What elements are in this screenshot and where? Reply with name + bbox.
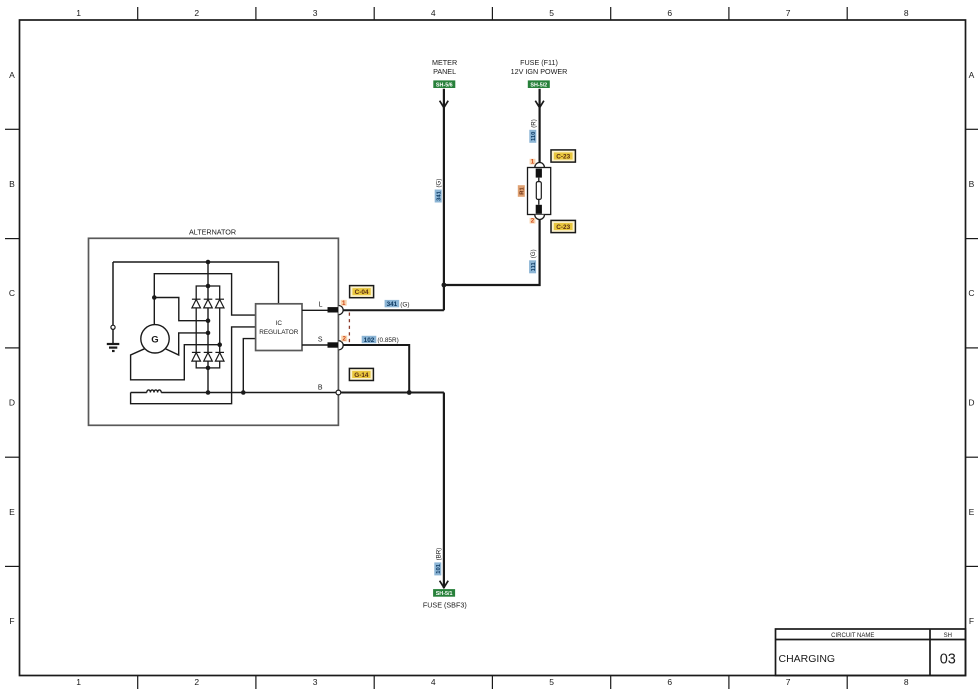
svg-text:B: B [969,179,975,189]
svg-text:8: 8 [904,677,909,687]
svg-text:12V IGN POWER: 12V IGN POWER [511,67,568,76]
generator G [141,325,169,353]
svg-text:METER: METER [432,58,457,67]
svg-text:C-23: C-23 [556,154,570,161]
svg-text:(R): (R) [530,119,537,128]
wire: phase B to rectifier center [165,333,208,355]
diode D5 (bottom center) [204,352,213,361]
svg-text:4: 4 [431,677,436,687]
svg-text:2: 2 [194,677,199,687]
svg-text:5: 5 [549,8,554,18]
svg-text:102: 102 [364,337,375,344]
diode D4 (bottom left) [192,352,201,361]
arrow on meter panel wire [440,101,449,108]
svg-text:(BR): (BR) [435,548,442,561]
svg-text:8: 8 [904,8,909,18]
svg-text:PANEL: PANEL [433,67,456,76]
wire label 110 (R) vertical [529,119,537,143]
pin 1 label (C-04) [341,300,347,307]
connector label C-23 upper [551,150,575,162]
pin 2 label (C-04) [341,336,347,343]
wire label 101 (BR) vertical [434,548,442,576]
sheet tag SH-5/1 (fuse SBF3) [433,589,455,597]
wire: generator top lead [153,298,155,325]
svg-text:(G): (G) [436,179,443,188]
svg-text:5: 5 [549,677,554,687]
svg-text:C: C [968,288,974,298]
wire: IC regulator field return [131,327,256,404]
svg-text:C-23: C-23 [556,224,570,231]
svg-text:1: 1 [76,677,81,687]
svg-text:SH-5/2: SH-5/2 [530,82,547,88]
svg-text:L: L [319,302,323,309]
wire: rectifier center rail [207,262,209,393]
svg-text:(0.85R): (0.85R) [377,337,398,344]
svg-text:B: B [9,179,15,189]
svg-text:D: D [968,398,974,408]
svg-text:7: 7 [786,8,791,18]
alternator outer box [89,238,339,425]
wire 341 (G): L terminal to meter panel line [343,309,444,311]
svg-text:ALTERNATOR: ALTERNATOR [189,228,236,237]
wire 102 (0.85R): S terminal to B rail [343,345,409,393]
IC regulator U1 [256,304,302,351]
wire 111 (G): resistor to branch junction [444,219,540,285]
grid row labels left [9,70,15,626]
svg-text:03: 03 [940,652,956,668]
svg-text:A: A [969,70,975,80]
connector label G-14 [349,368,373,380]
svg-text:6: 6 [667,677,672,687]
wire label 341 (G) horizontal [385,300,410,308]
sheet tag SH-5/6 (meter panel) [433,80,455,88]
svg-text:6: 6 [667,8,672,18]
svg-text:E: E [9,507,15,517]
svg-text:111: 111 [531,262,537,272]
diode D2 (top center) [204,299,213,308]
grid row labels right [968,70,974,626]
svg-text:SH: SH [944,633,952,639]
connector label C-23 lower [551,220,575,232]
svg-text:E: E [969,507,975,517]
arrow on fuse F11 wire [535,101,544,108]
svg-text:(G): (G) [530,249,537,258]
svg-text:3: 3 [313,8,318,18]
svg-text:7: 7 [786,677,791,687]
svg-text:D: D [9,398,15,408]
svg-text:1: 1 [342,300,346,307]
svg-text:2: 2 [342,336,346,343]
connector boundary dashed line C-04 [348,313,350,344]
wire: fuse F11 drop to resistor [538,89,540,163]
svg-text:IC: IC [276,320,283,327]
svg-text:SH-5/6: SH-5/6 [436,82,453,88]
pin 2 label (C-23) [530,218,536,225]
svg-text:CIRCUIT NAME: CIRCUIT NAME [831,633,874,639]
svg-text:G-14: G-14 [354,372,369,379]
svg-text:F: F [969,616,974,626]
node: center rail on B rail [206,390,211,395]
svg-text:A: A [9,70,15,80]
svg-text:R1: R1 [520,187,526,195]
svg-text:F: F [9,616,14,626]
sheet tag SH-5/2 (fuse F11) [528,80,550,88]
node: phase C on rectifier right rail [217,342,222,347]
grid column labels bottom [76,677,909,687]
wire: stator top feed to IC regulator [154,274,255,315]
svg-text:C: C [9,288,15,298]
wire: ground top rail to IC regulator top [113,262,279,304]
ground (alternator case) [107,262,120,351]
wire label 341 (G) vertical on meter drop [435,179,443,203]
wire: IC regulator S input [302,344,328,346]
svg-text:S: S [318,337,323,344]
node: center rail at bridge top [206,284,211,289]
svg-text:341: 341 [437,190,443,200]
node: center rail at bridge bottom [206,366,211,371]
wire label 111 (G) vertical [529,249,537,273]
diode D1 (top left) [192,299,201,308]
svg-text:341: 341 [387,301,398,308]
svg-text:3: 3 [313,677,318,687]
grid column labels top [76,8,909,18]
wire: meter panel drop to L wire [443,89,445,310]
resistor R1 (fusible unit) [528,163,551,220]
wire: B terminal rail to SBF3 drop [341,392,444,394]
wire label 102 (0.85R) [362,336,399,344]
arrow to SBF3 [440,581,449,588]
wire: phase A to rectifier center [154,298,208,321]
wire 101 (BR): B rail drop to SBF3 [443,393,445,589]
node: S wire on B wire [407,390,412,395]
title block [776,629,966,676]
connector label C-04 [350,286,374,298]
rectifier bridge box [196,286,220,368]
node: stator phase A junction [152,295,157,300]
terminal S pin [328,342,339,347]
stator winding skirt [131,345,220,380]
node: fuse branch junction [442,283,447,288]
svg-text:SH-5/1: SH-5/1 [436,591,453,597]
svg-text:REGULATOR: REGULATOR [259,329,299,336]
svg-text:FUSE (SBF3): FUSE (SBF3) [423,600,467,609]
svg-text:1: 1 [531,159,535,166]
svg-text:B: B [318,385,323,392]
node: top rail / center rail junction [206,260,211,265]
svg-text:1: 1 [76,8,81,18]
terminal L pin [328,307,339,312]
resistor designator R1 tag [518,185,526,197]
svg-text:FUSE (F11): FUSE (F11) [520,58,558,67]
svg-text:C-04: C-04 [355,289,369,296]
node: phase A on center rail [206,318,211,323]
svg-text:4: 4 [431,8,436,18]
wire: IC regulator to B rail [243,339,255,393]
svg-text:2: 2 [531,218,535,225]
svg-text:110: 110 [531,132,537,141]
node: IC lead on B rail [241,390,246,395]
svg-text:101: 101 [436,563,442,573]
field coil (rotor) [131,390,337,393]
wire: IC regulator L output [302,309,328,311]
svg-text:G: G [151,335,158,346]
svg-text:2: 2 [194,8,199,18]
node: phase B on center rail [206,331,211,336]
diode D6 (bottom right) [215,352,224,361]
diode D3 (top right) [215,299,224,308]
svg-text:CHARGING: CHARGING [779,653,836,665]
pin 1 label (C-23) [530,159,536,166]
svg-text:(G): (G) [400,301,409,308]
